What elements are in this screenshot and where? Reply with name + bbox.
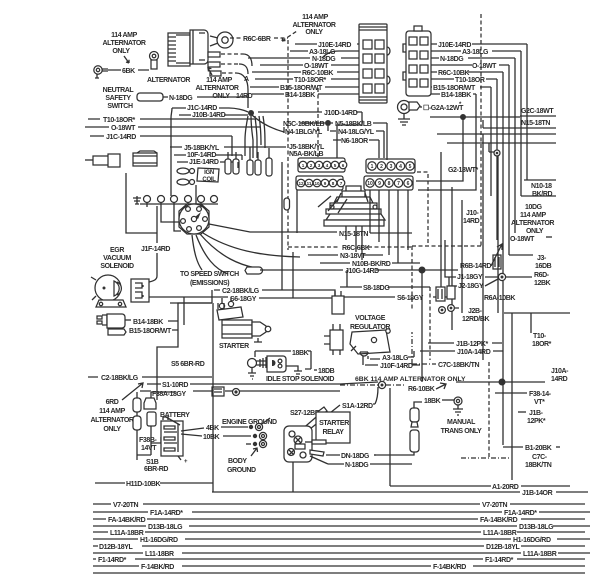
svg-text:12: 12: [298, 181, 304, 186]
svg-text:BK/RD: BK/RD: [532, 191, 553, 198]
svg-text:12PK*: 12PK*: [527, 418, 546, 425]
svg-text:6RD: 6RD: [106, 399, 119, 406]
svg-text:R6C-6BR: R6C-6BR: [243, 36, 271, 43]
svg-text:10: 10: [367, 181, 373, 187]
svg-text:STARTER: STARTER: [219, 343, 249, 350]
wire A3-18LG: [290, 51, 359, 58]
wire O-18WT: [85, 126, 260, 128]
svg-text:ALTERNATOR: ALTERNATOR: [147, 77, 190, 84]
svg-text:114 AMP: 114 AMP: [520, 212, 546, 219]
vertical wire from J1C down: [171, 108, 172, 150]
svg-text:ALTERNATOR: ALTERNATOR: [90, 417, 133, 424]
component mini connector right: [493, 255, 501, 269]
wire G2C-18WT: [510, 116, 520, 118]
svg-text:J1E-14RD: J1E-14RD: [189, 159, 219, 166]
plug wires from distributor: [192, 233, 300, 274]
wire J10E-14RD: [295, 43, 359, 45]
svg-text:114 AMP: 114 AMP: [206, 77, 232, 84]
wire F38-14-VT*: [495, 392, 527, 394]
wire J10A-14RD: [420, 350, 503, 352]
svg-text:FA-14BK/RD: FA-14BK/RD: [108, 517, 146, 524]
svg-text:F38-14-: F38-14-: [529, 391, 552, 398]
svg-text:9: 9: [324, 181, 327, 186]
svg-text:R6D-: R6D-: [534, 272, 550, 279]
svg-text:A3-18LG: A3-18LG: [309, 49, 336, 56]
wire N-18DG: [248, 57, 359, 59]
engine block outline: [126, 173, 157, 233]
svg-text:ONLY: ONLY: [305, 29, 323, 36]
svg-text:S1B: S1B: [146, 459, 159, 466]
coil terminal ovals: [177, 168, 195, 185]
dashed boundary bottom right: [488, 362, 490, 458]
svg-text:F1-14RD*: F1-14RD*: [485, 557, 514, 564]
bus wire D12B-18YL: [93, 545, 585, 547]
wire J10G-14RD: [265, 269, 420, 271]
svg-text:3: 3: [318, 163, 321, 168]
svg-text:J1B-14OR: J1B-14OR: [522, 490, 553, 497]
wire T10-18OR*: [88, 118, 255, 120]
svg-text:10: 10: [314, 181, 320, 186]
node junction J10B: [248, 110, 254, 116]
svg-text:S6-18GY: S6-18GY: [397, 295, 424, 302]
svg-text:J5-18BK/YL: J5-18BK/YL: [184, 145, 220, 152]
wire A3-18LG right: [431, 51, 521, 196]
svg-text:18BK: 18BK: [424, 398, 441, 405]
svg-text:J1C-14RD: J1C-14RD: [187, 105, 217, 112]
svg-text:J10-: J10-: [466, 210, 479, 217]
connector plug left A: [85, 154, 120, 167]
wire G2A to junction: [430, 116, 510, 118]
wire 10BK: [181, 434, 251, 436]
wire rows into engine left: [147, 203, 201, 207]
svg-text:T10-18OR*: T10-18OR*: [294, 77, 326, 84]
svg-text:B14-18BK: B14-18BK: [285, 92, 315, 99]
spark towers right group row1 numbered: [366, 159, 415, 173]
wire O-18WT: [260, 64, 359, 66]
svg-text:N15-18TN: N15-18TN: [521, 120, 550, 127]
svg-text:2: 2: [380, 164, 383, 170]
condenser pills 1: [225, 152, 239, 174]
wire 6BK: [108, 69, 149, 71]
EGR solenoid body: [91, 275, 121, 301]
svg-text:C7C-: C7C-: [532, 454, 548, 461]
wire J2-18GY: [449, 279, 498, 286]
starter feed wire: [170, 303, 224, 309]
svg-text:6BR-RD: 6BR-RD: [144, 466, 168, 473]
svg-text:T10-18OR*: T10-18OR*: [103, 117, 135, 124]
svg-text:G2-18WT*: G2-18WT*: [448, 167, 479, 174]
svg-text:B15-18OR/WT: B15-18OR/WT: [129, 328, 172, 335]
distributor cap towers row: [140, 196, 218, 232]
svg-text:B14-18BK: B14-18BK: [133, 319, 163, 326]
svg-text:C7C-18BK/TN: C7C-18BK/TN: [438, 362, 479, 369]
spark towers left group row2: [296, 176, 345, 190]
svg-text:5: 5: [334, 163, 337, 168]
wire stubs from towers: [297, 190, 408, 263]
svg-text:D13B-18LG: D13B-18LG: [519, 524, 554, 531]
alternator output wires to junction: [221, 54, 243, 73]
vertical J10 bracket: [441, 152, 452, 330]
EGR bracket plate: [96, 300, 126, 307]
svg-text:J1F-14RD: J1F-14RD: [141, 246, 170, 253]
svg-text:14RD: 14RD: [463, 218, 480, 225]
svg-text:S8-18DG: S8-18DG: [363, 285, 390, 292]
svg-text:ONLY: ONLY: [103, 426, 121, 433]
svg-text:18BK: 18BK: [292, 350, 309, 357]
wire N3-18VT: [308, 254, 383, 256]
wire R6B-14RD: [425, 269, 458, 271]
svg-text:T10-: T10-: [533, 333, 547, 340]
wire A-14RD vertical into junction: [247, 90, 249, 108]
ignition coil: [197, 168, 219, 183]
wire J1B-12PK*: [428, 342, 502, 344]
ground G2A eyelet: [398, 101, 421, 126]
fusible link right F38B: [137, 392, 175, 434]
svg-text:BODY: BODY: [228, 458, 247, 465]
svg-text:H11D-10BK: H11D-10BK: [126, 481, 160, 488]
svg-text:L11-18BR: L11-18BR: [145, 551, 174, 558]
wire J10D-14RD: [258, 111, 362, 113]
arrow from mid note up to alternator: [208, 68, 212, 75]
ground pickup in block: [133, 196, 141, 204]
wire DN-18DG to tower: [374, 452, 414, 455]
svg-text:O-18WT: O-18WT: [510, 236, 535, 243]
wire C2-18BK/LG (upper): [157, 290, 335, 400]
arrow 6RD to fuse link: [122, 383, 143, 400]
wire J1B-12PK* (lower): [518, 411, 526, 413]
svg-text:T10-18OR: T10-18OR: [455, 77, 485, 84]
connector bullet on wire: [284, 198, 290, 210]
svg-text:F-14BK/RD: F-14BK/RD: [433, 564, 466, 571]
svg-text:BATTERY: BATTERY: [160, 412, 190, 419]
svg-text:3: 3: [390, 164, 393, 170]
svg-text:18DB: 18DB: [318, 368, 335, 375]
svg-text:N10-18: N10-18: [531, 183, 552, 190]
svg-text:8: 8: [388, 181, 391, 187]
svg-text:COIL: COIL: [202, 177, 216, 183]
svg-text:N-18DG: N-18DG: [440, 56, 464, 63]
svg-text:R6C-10BK: R6C-10BK: [302, 70, 333, 77]
svg-text:SAFETY: SAFETY: [105, 95, 131, 102]
svg-text:N4-18LG/YL: N4-18LG/YL: [338, 129, 375, 136]
svg-text:N10B-BK/RD: N10B-BK/RD: [352, 261, 391, 268]
svg-text:O-18WT: O-18WT: [472, 63, 497, 70]
svg-text:N3-18VT: N3-18VT: [340, 253, 366, 260]
svg-text:6: 6: [342, 163, 345, 168]
wire from links to battery: [137, 434, 161, 455]
note 114 AMP ALTERNATOR ONLY (left): [102, 32, 145, 55]
vertical bracket x212: [212, 303, 214, 492]
svg-text:G2C-18WT: G2C-18WT: [521, 108, 554, 115]
bus wire H1-16DG/RD: [93, 538, 590, 540]
wire B14-18BK connector: [97, 314, 126, 335]
svg-text:TRANS ONLY: TRANS ONLY: [441, 428, 483, 435]
alternator ALT1: [168, 30, 233, 76]
ballast tower (manual trans): [410, 397, 463, 452]
svg-text:GROUND: GROUND: [227, 467, 256, 474]
svg-text:B14-18BK: B14-18BK: [441, 92, 471, 99]
svg-text:C2-18BK/LG: C2-18BK/LG: [222, 288, 260, 295]
svg-text:N15-18TN: N15-18TN: [339, 231, 368, 238]
dashed boundary vertical right: [412, 14, 481, 310]
wire arrow from note to 6BK: [124, 56, 129, 63]
bus wire F1A-14RD*: [93, 511, 590, 513]
bus wire F1-14RD*: [93, 558, 585, 560]
svg-text:8: 8: [332, 181, 335, 186]
wire R6-10BK with grommet: [340, 384, 378, 386]
svg-text:N-18DG: N-18DG: [312, 56, 336, 63]
svg-text:18OR*: 18OR*: [532, 341, 552, 348]
wire J1E-14RD: [177, 161, 238, 163]
wire B14-18BK right: [431, 94, 476, 180]
svg-text:D12B-18YL: D12B-18YL: [486, 544, 520, 551]
svg-text:J3-: J3-: [537, 255, 547, 262]
dashed boundary vertical left: [287, 40, 289, 250]
bus wire F-14BK/RD: [93, 565, 585, 567]
wire B15-18OR/WT: [250, 86, 359, 88]
svg-text:H1-16DG/RD: H1-16DG/RD: [140, 537, 178, 544]
svg-text:S5 6BR-RD: S5 6BR-RD: [171, 361, 205, 368]
svg-text:J1B-12PK*: J1B-12PK*: [456, 341, 488, 348]
svg-text:R6-10BK: R6-10BK: [408, 386, 435, 393]
wire T10-18OR*: [255, 78, 359, 80]
svg-text:A3-18LG: A3-18LG: [382, 355, 409, 362]
svg-text:H1-16DG/RD: H1-16DG/RD: [513, 537, 551, 544]
svg-text:SOLENOID: SOLENOID: [100, 263, 134, 270]
svg-text:N4-1BLG/YL: N4-1BLG/YL: [285, 129, 323, 136]
svg-text:14VT: 14VT: [141, 445, 157, 452]
wire R6C-6BK dashed: [288, 246, 412, 248]
svg-text:D13B-18LG: D13B-18LG: [148, 524, 183, 531]
wire O-18WT right: [546, 236, 552, 238]
svg-text:SWITCH: SWITCH: [107, 103, 133, 110]
svg-text:TO SPEED SWITCH: TO SPEED SWITCH: [180, 271, 239, 278]
svg-text:EGR: EGR: [110, 247, 124, 254]
svg-text:12BK: 12BK: [534, 280, 551, 287]
wire C2 riser: [282, 162, 293, 298]
svg-text:L11A-18BR: L11A-18BR: [523, 551, 557, 558]
svg-text:J10A-14RD: J10A-14RD: [457, 349, 491, 356]
wire S1A-12RD diag: [310, 405, 340, 429]
svg-text:(EMISSIONS): (EMISSIONS): [190, 280, 229, 287]
wire T10-18OR right: [431, 79, 497, 240]
svg-text:10F-14RD: 10F-14RD: [187, 152, 216, 159]
svg-text:STARTER: STARTER: [319, 420, 349, 427]
wire O-18WT right: [431, 65, 533, 255]
svg-text:J10G-14RD: J10G-14RD: [345, 268, 379, 275]
svg-text:VOLTAGE: VOLTAGE: [355, 315, 386, 322]
wire 18BK (idle stop): [255, 351, 311, 369]
svg-text:1: 1: [371, 164, 374, 170]
svg-text:FA-14BK/RD: FA-14BK/RD: [480, 517, 518, 524]
wire 4BK: [181, 427, 248, 431]
svg-text:J1-18GY: J1-18GY: [457, 274, 483, 281]
bus wire bottom: [93, 572, 585, 574]
bus wire FA-14BK/RD: [93, 518, 585, 520]
wire J2B-12RD/BK: [455, 308, 570, 333]
svg-text:C2-18BK/LG: C2-18BK/LG: [101, 375, 139, 382]
svg-text:2: 2: [310, 163, 313, 168]
svg-text:12RD/BK: 12RD/BK: [462, 316, 489, 323]
wire DN-18DG: [326, 454, 386, 456]
battery: [160, 412, 190, 465]
svg-text:R6C-10BK: R6C-10BK: [438, 70, 469, 77]
note 114 AMP ALTERNATOR ONLY (top): [292, 14, 335, 36]
speed switch lug: [245, 267, 263, 274]
svg-text:NEUTRAL: NEUTRAL: [103, 87, 135, 94]
svg-text:J10F-14RD: J10F-14RD: [380, 363, 413, 370]
svg-text:16DB: 16DB: [535, 263, 552, 270]
junction dot right: [499, 379, 506, 386]
svg-text:ALTERNATOR: ALTERNATOR: [102, 40, 145, 47]
idle stop solenoid: [248, 356, 303, 379]
svg-text:J10E-14RD: J10E-14RD: [318, 42, 351, 49]
svg-text:L11A-18BR: L11A-18BR: [483, 530, 517, 537]
svg-text:RELAY: RELAY: [322, 429, 344, 436]
svg-text:ONLY: ONLY: [112, 48, 130, 55]
wire 10F-14RD: [174, 154, 242, 156]
wire bundle horizontals right: [437, 134, 556, 143]
wire R6C-10BK: [252, 71, 359, 73]
svg-text:14RD: 14RD: [551, 376, 568, 383]
wire C7C-18BK/TN (lower): [461, 457, 511, 459]
wire N-18DG right: [431, 58, 515, 233]
svg-text:O-18WT: O-18WT: [111, 125, 136, 132]
svg-text:ENGINE GROUND: ENGINE GROUND: [222, 419, 277, 426]
engine ground eyelet: [249, 418, 270, 431]
svg-text:F1A-14RD*: F1A-14RD*: [504, 510, 537, 517]
note 114 AMP ALTERNATOR ONLY (mid): [195, 76, 252, 100]
wire N-18DG: [293, 456, 412, 492]
svg-text:B1-20BK: B1-20BK: [525, 445, 552, 452]
svg-text:J10B-14RD: J10B-14RD: [192, 112, 226, 119]
terminal eyelet left: [94, 66, 108, 78]
bus wire D13B-18LG: [93, 525, 590, 527]
svg-text:☐-G2A-12WT: ☐-G2A-12WT: [423, 104, 464, 112]
svg-text:S1A-12RD: S1A-12RD: [342, 403, 373, 410]
svg-text:7: 7: [340, 181, 343, 186]
svg-text:R6A-10BK: R6A-10BK: [484, 295, 515, 302]
svg-text:114 AMP: 114 AMP: [302, 14, 328, 21]
svg-text:S27-12BR: S27-12BR: [290, 410, 320, 417]
svg-text:S6-18GY: S6-18GY: [230, 296, 257, 303]
distributor body: [179, 204, 209, 234]
wire H11D-10BK: [95, 482, 213, 484]
wires N10-18 BK/RD: [521, 180, 556, 196]
svg-text:10DG: 10DG: [525, 204, 543, 211]
plug wire stubs into towers: [318, 196, 347, 213]
connector plug left B: [133, 151, 157, 166]
svg-text:DN-18DG: DN-18DG: [341, 453, 370, 460]
svg-text:S1-10RD: S1-10RD: [162, 382, 188, 389]
wire B15-18OR/WT right: [431, 87, 491, 196]
spark towers left group row1: [298, 158, 347, 172]
svg-text:N6-18OR: N6-18OR: [341, 138, 368, 145]
vertical bundle right side: [482, 134, 484, 360]
svg-text:V7-20TN: V7-20TN: [482, 502, 508, 509]
wire C2-18BK/LG (lower): [88, 376, 212, 378]
wire N-18DG: [163, 96, 248, 98]
bus wire L11A-18BR: [93, 531, 585, 533]
svg-text:9: 9: [378, 181, 381, 187]
wire B1-20BK: [503, 446, 523, 448]
wire R6C-6BR dashed: [230, 37, 288, 39]
svg-text:J2B-: J2B-: [468, 308, 483, 315]
svg-text:O-18WT: O-18WT: [304, 63, 329, 70]
svg-text:114 AMP: 114 AMP: [99, 408, 125, 415]
wire C7C-18BK/TN dashed: [412, 332, 436, 364]
bus wire L11-18BR: [93, 552, 590, 554]
wire J1-18GY: [449, 276, 498, 278]
svg-text:4: 4: [399, 164, 402, 170]
vertical from junction dot down: [422, 200, 462, 382]
mini connectors mid: [436, 286, 455, 313]
svg-text:6: 6: [407, 181, 410, 187]
svg-text:J1B-: J1B-: [529, 410, 544, 417]
wire N6-18OR: [333, 139, 379, 141]
wire R6C-10BK right: [431, 72, 503, 274]
wire A3-18LG (reg): [368, 351, 414, 359]
svg-text:J10E-14RD: J10E-14RD: [438, 42, 471, 49]
svg-text:MANUAL: MANUAL: [447, 419, 476, 426]
svg-text:5: 5: [409, 164, 412, 170]
svg-text:114 AMP: 114 AMP: [111, 32, 137, 39]
wire J1C-14RD (lower): [90, 136, 232, 156]
wire bundle fanning from junction down: [245, 115, 284, 158]
svg-text:10BK: 10BK: [203, 434, 220, 441]
svg-text:ALTERNATOR: ALTERNATOR: [292, 22, 335, 29]
starter relay body: [284, 426, 312, 462]
svg-text:F-14BK/RD: F-14BK/RD: [141, 564, 174, 571]
svg-text:VACUUM: VACUUM: [103, 255, 131, 262]
svg-text:J5-18BK/YL: J5-18BK/YL: [289, 144, 325, 151]
svg-text:18BK/TN: 18BK/TN: [525, 462, 552, 469]
svg-text:F1A-14RD*: F1A-14RD*: [150, 510, 183, 517]
svg-text:N5C-18BK/LB: N5C-18BK/LB: [283, 121, 324, 128]
EGR note: [100, 247, 134, 270]
svg-text:A1-20RD: A1-20RD: [492, 484, 519, 491]
svg-text:J10A-: J10A-: [551, 368, 569, 375]
voltage regulator body: [350, 329, 390, 356]
condenser pills 2: [247, 152, 261, 175]
wire R6D-12BK: [506, 276, 532, 278]
svg-text:F1-14RD*: F1-14RD*: [98, 557, 127, 564]
svg-text:4: 4: [326, 163, 329, 168]
svg-text:VT*: VT*: [534, 399, 545, 406]
spark towers right group row2 numbered: [364, 176, 413, 190]
wire A1-20RD: [390, 485, 570, 487]
wire S1-10RD: [147, 382, 378, 384]
fusible link left: [133, 392, 141, 460]
wire J5-18BK/YL (right): [250, 146, 286, 148]
wire J10E-14RD right: [431, 44, 527, 180]
wire G2A-12WT: [420, 106, 422, 108]
svg-text:V7-20TN: V7-20TN: [113, 502, 139, 509]
EGR connector: [131, 279, 149, 302]
svg-text:B15-18OR/WT: B15-18OR/WT: [433, 85, 476, 92]
wire B14-18BK: [252, 93, 359, 95]
wire S8-18DG: [340, 286, 430, 288]
svg-text:L11A-18BR: L11A-18BR: [110, 530, 144, 537]
svg-text:N-18DG: N-18DG: [169, 95, 193, 102]
fuse link box: [212, 387, 224, 396]
wire N10B-BK/RD: [320, 262, 420, 264]
svg-text:7: 7: [397, 181, 400, 187]
body ground eyelets: [246, 432, 267, 447]
svg-text:IDLE STOP SOLENOID: IDLE STOP SOLENOID: [266, 376, 334, 383]
wire S1A-12RD riser: [373, 387, 378, 404]
svg-text:D12B-18YL: D12B-18YL: [99, 544, 133, 551]
